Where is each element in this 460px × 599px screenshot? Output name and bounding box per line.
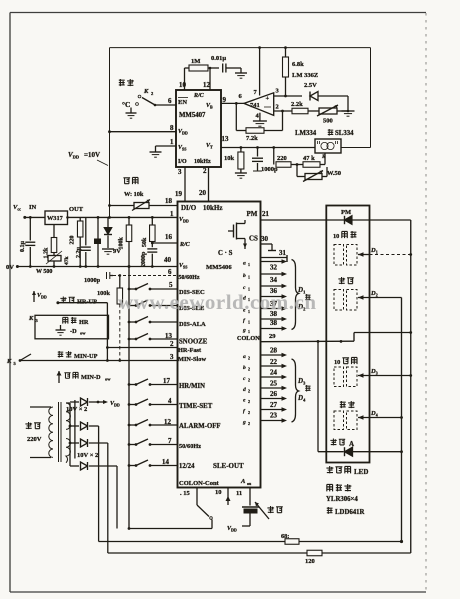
svg-text:220: 220 bbox=[277, 155, 287, 162]
potentiometer W50 bbox=[297, 165, 341, 182]
svg-text:-D: -D bbox=[70, 328, 77, 335]
svg-text:A: A bbox=[240, 478, 246, 485]
IC W317 bbox=[45, 211, 68, 225]
svg-text:HR: HR bbox=[79, 319, 89, 326]
svg-text:LDD641R: LDD641R bbox=[335, 509, 365, 516]
svg-text:10: 10 bbox=[215, 489, 222, 496]
op-amp U1 741 bbox=[239, 88, 280, 120]
svg-text:K: K bbox=[143, 88, 149, 95]
svg-text:1: 1 bbox=[248, 320, 250, 325]
svg-text:ow: ow bbox=[105, 377, 111, 382]
svg-text:www.eeworld.com.cn: www.eeworld.com.cn bbox=[118, 290, 317, 314]
wire 741 out to pin9 bbox=[221, 102, 244, 105]
switch 50/60Hz pin7 bbox=[128, 439, 178, 446]
svg-text:1: 1 bbox=[248, 329, 250, 334]
wire switch bus bbox=[128, 265, 131, 528]
label hour digit bbox=[338, 277, 353, 284]
svg-text:16: 16 bbox=[165, 233, 173, 241]
svg-text:I/O: I/O bbox=[178, 159, 187, 165]
display annotation bbox=[326, 466, 368, 516]
svg-text:W: 10k: W: 10k bbox=[124, 191, 144, 198]
display digit2 bbox=[334, 290, 357, 311]
svg-text:W.50: W.50 bbox=[327, 170, 341, 177]
svg-text:10V × 2: 10V × 2 bbox=[66, 406, 87, 413]
svg-text:MM5406: MM5406 bbox=[206, 264, 232, 271]
ground pin1 MM5407 bbox=[150, 146, 177, 157]
svg-text:K: K bbox=[6, 358, 12, 365]
svg-text:PM: PM bbox=[247, 210, 258, 218]
label 10Vx2 top bbox=[66, 406, 87, 413]
resistor 220 bbox=[274, 148, 303, 168]
svg-text:6: 6 bbox=[168, 97, 172, 105]
capacitor 2.2u bbox=[76, 217, 91, 266]
svg-text:47k: 47k bbox=[64, 256, 70, 266]
svg-text:3: 3 bbox=[178, 168, 182, 176]
resistor 1M bbox=[185, 58, 220, 90]
MM5406 center labels bbox=[206, 210, 258, 271]
svg-text:VDD: VDD bbox=[179, 217, 189, 224]
label MIN-UP bbox=[58, 351, 98, 360]
wire 741 pin7 supply bbox=[258, 46, 261, 95]
svg-text:SL334: SL334 bbox=[335, 130, 354, 137]
resistor 6.8k bbox=[283, 46, 305, 96]
svg-text:1M: 1M bbox=[191, 58, 200, 65]
svg-text:2.2k: 2.2k bbox=[291, 101, 303, 108]
svg-text:HR/MIN: HR/MIN bbox=[179, 383, 205, 390]
label min digit bbox=[340, 401, 355, 408]
svg-text:2.5V: 2.5V bbox=[304, 82, 317, 89]
display digit1 bbox=[334, 245, 357, 266]
svg-text:10V × 2: 10V × 2 bbox=[77, 452, 98, 459]
MM5407 labels bbox=[178, 93, 213, 165]
label K3 bbox=[28, 315, 39, 323]
svg-text:MIN-UP: MIN-UP bbox=[74, 353, 98, 360]
wire bus B bbox=[106, 303, 108, 361]
svg-text:1: 1 bbox=[248, 275, 250, 280]
capacitor elco blob bbox=[94, 217, 101, 266]
wire center tap bbox=[74, 400, 76, 459]
svg-text:b: b bbox=[243, 273, 246, 279]
wire pin16 RC bbox=[151, 242, 178, 245]
svg-text:2: 2 bbox=[170, 340, 174, 348]
svg-text:a: a bbox=[243, 261, 246, 267]
svg-text:4: 4 bbox=[168, 397, 172, 405]
svg-text:d: d bbox=[243, 387, 246, 393]
svg-text:741: 741 bbox=[250, 102, 260, 109]
watermark eeworld bbox=[118, 290, 317, 314]
svg-text:220V: 220V bbox=[27, 436, 42, 443]
IC LM334 bbox=[295, 129, 354, 153]
potentiometer 500 bbox=[317, 105, 349, 125]
wire D4 bbox=[358, 410, 402, 420]
svg-text:OUT: OUT bbox=[69, 206, 84, 213]
wire rect out 3 bbox=[116, 466, 118, 529]
svg-text:VSS: VSS bbox=[179, 263, 188, 270]
svg-text:50/60Hz: 50/60Hz bbox=[179, 275, 200, 281]
svg-text:g: g bbox=[242, 328, 246, 334]
wire D1 bbox=[358, 247, 411, 257]
label OUT bbox=[66, 206, 84, 219]
display box bbox=[326, 206, 369, 463]
wire V+ top rail bbox=[110, 47, 371, 49]
svg-text:VT: VT bbox=[206, 143, 213, 150]
svg-text:HR-Fast: HR-Fast bbox=[178, 347, 202, 354]
resistor 50k bbox=[142, 217, 155, 247]
svg-text:2: 2 bbox=[276, 104, 279, 111]
switch pin15 bbox=[180, 488, 212, 529]
svg-text:5: 5 bbox=[169, 281, 173, 289]
svg-text:26: 26 bbox=[270, 390, 278, 398]
svg-text:500: 500 bbox=[323, 118, 333, 125]
svg-text:K: K bbox=[28, 315, 34, 322]
MM5406 left pin labels bbox=[162, 197, 174, 466]
svg-text:30: 30 bbox=[261, 235, 269, 243]
wire rect out 1 bbox=[98, 426, 100, 542]
svg-text:2.2μ: 2.2μ bbox=[76, 247, 82, 259]
svg-text:°C: °C bbox=[122, 100, 130, 109]
svg-text:100k: 100k bbox=[97, 290, 110, 297]
svg-text:2: 2 bbox=[248, 367, 250, 372]
svg-text:29: 29 bbox=[269, 333, 276, 340]
resistor 220 vert bbox=[70, 217, 83, 266]
svg-text:2: 2 bbox=[248, 389, 250, 394]
svg-text:VDD: VDD bbox=[227, 526, 237, 533]
wire V+ left vertical bbox=[109, 48, 111, 218]
pin 29 colon wire bbox=[261, 333, 411, 343]
svg-text:40: 40 bbox=[164, 256, 172, 264]
wire pin15 rail bbox=[128, 527, 212, 530]
buzzer alarm bbox=[227, 488, 283, 533]
display digit4 bbox=[334, 411, 357, 430]
svg-text:W317: W317 bbox=[47, 215, 63, 222]
svg-text:3: 3 bbox=[170, 353, 174, 361]
label VDD out bbox=[98, 400, 120, 408]
svg-text:MM5407: MM5407 bbox=[179, 112, 206, 119]
resistor 47k bbox=[303, 153, 326, 167]
svg-text:6: 6 bbox=[168, 268, 172, 276]
svg-text:100k: 100k bbox=[119, 237, 125, 250]
stub pin10 bbox=[215, 488, 231, 506]
wire pin3-19 bbox=[184, 167, 186, 202]
switch DIS-ALA bbox=[128, 317, 178, 324]
svg-text:2: 2 bbox=[248, 378, 250, 383]
svg-text:CS: CS bbox=[249, 235, 258, 243]
wire pin8 VDD bbox=[108, 130, 176, 133]
svg-text:25: 25 bbox=[270, 380, 278, 388]
switch DIS-SLE bbox=[128, 300, 178, 307]
svg-text:LM334: LM334 bbox=[295, 130, 317, 137]
wire V+ right vertical bbox=[341, 48, 371, 148]
svg-text:19: 19 bbox=[175, 190, 183, 198]
svg-text:10: 10 bbox=[333, 233, 339, 240]
brace D1 D2 bbox=[292, 260, 311, 330]
svg-text:DI/O: DI/O bbox=[181, 204, 197, 212]
svg-text:LM 336Z: LM 336Z bbox=[292, 72, 318, 79]
capacitor 0.1u bbox=[20, 216, 35, 267]
svg-text:C · S: C · S bbox=[218, 250, 233, 257]
svg-text:14: 14 bbox=[162, 458, 170, 466]
svg-text:R/C: R/C bbox=[193, 93, 205, 99]
svg-text:+: + bbox=[266, 95, 270, 102]
resistor 10k bbox=[224, 148, 247, 179]
svg-text:W 500: W 500 bbox=[36, 269, 52, 275]
svg-text:47 k: 47 k bbox=[303, 155, 315, 162]
label VDD=10V bbox=[68, 151, 108, 166]
resistor 7.2k feedback bbox=[236, 103, 282, 142]
wire 741 pin2 bbox=[274, 110, 292, 113]
pin 21 PM wire bbox=[261, 210, 327, 220]
wire MIN-Slow pin3 bbox=[19, 354, 178, 362]
diode D6 bbox=[70, 422, 99, 430]
label AC 220V bbox=[25, 422, 41, 443]
svg-text:23: 23 bbox=[270, 412, 278, 420]
wire pin12 bbox=[209, 67, 212, 90]
switch HR/MIN pin17 bbox=[128, 379, 178, 386]
svg-text:. 15: . 15 bbox=[180, 490, 191, 497]
capacitor 1000p pin6 bbox=[84, 272, 178, 284]
transformer T1 bbox=[30, 402, 70, 463]
resistor 100k bbox=[119, 217, 132, 266]
MM5406 segment outputs digit2 bbox=[242, 347, 287, 427]
diode D5 bbox=[70, 398, 99, 406]
wire HR-Fast pin2 bbox=[106, 346, 178, 349]
svg-text:0.1μ: 0.1μ bbox=[20, 241, 26, 253]
svg-text:22: 22 bbox=[270, 358, 278, 366]
capacitor 2000p bbox=[141, 243, 157, 267]
MOSFET inside MM5406 bbox=[228, 220, 247, 249]
svg-text:18: 18 bbox=[165, 197, 173, 205]
wire rail 120 bbox=[108, 552, 411, 554]
brightness pot W10k bbox=[108, 177, 177, 210]
svg-text:HR-UP: HR-UP bbox=[77, 299, 97, 306]
svg-text:10kHz: 10kHz bbox=[203, 204, 222, 212]
svg-text:220: 220 bbox=[70, 236, 76, 245]
svg-text:MIN-Slow: MIN-Slow bbox=[178, 356, 206, 363]
svg-text:2: 2 bbox=[248, 410, 250, 415]
wire pin13 VT bbox=[221, 146, 315, 149]
label MIN-Down bbox=[57, 371, 112, 383]
terminal Vcc IN bbox=[13, 204, 45, 219]
svg-text:2: 2 bbox=[248, 421, 250, 426]
svg-text:COLON: COLON bbox=[237, 335, 260, 342]
svg-text:1: 1 bbox=[248, 262, 250, 267]
svg-text:50k: 50k bbox=[142, 237, 148, 247]
svg-text:21: 21 bbox=[262, 210, 270, 218]
svg-text:SLE-OUT: SLE-OUT bbox=[213, 462, 244, 470]
wire 741 pin3 bbox=[274, 95, 302, 98]
resistor 68 bbox=[281, 533, 299, 544]
diode D7 bbox=[70, 439, 108, 447]
svg-text:SNOOZE: SNOOZE bbox=[179, 339, 208, 346]
svg-text:VDD: VDD bbox=[37, 293, 47, 300]
svg-text:10: 10 bbox=[334, 359, 340, 366]
capacitor 0.01u bbox=[211, 55, 247, 78]
resistor 47k small bbox=[64, 256, 70, 266]
svg-text:VSS: VSS bbox=[178, 145, 187, 152]
zener LM336Z 2.5V bbox=[292, 72, 355, 116]
svg-text:ow: ow bbox=[80, 331, 86, 336]
label VDD arrow HR-UP bbox=[32, 291, 47, 302]
svg-text:TIME-SET: TIME-SET bbox=[179, 403, 213, 410]
svg-text:12/24: 12/24 bbox=[179, 463, 195, 470]
svg-text:EN: EN bbox=[178, 99, 187, 106]
svg-text:34: 34 bbox=[270, 276, 278, 284]
wire right vertical B bbox=[409, 220, 412, 553]
capacitor 1000p bbox=[252, 148, 278, 174]
svg-text:a: a bbox=[243, 354, 246, 360]
resistor 120 bbox=[305, 550, 322, 565]
switch DIS-SEC pin5 bbox=[128, 284, 178, 291]
svg-text:10: 10 bbox=[179, 81, 187, 89]
resistor 1.2k bbox=[44, 225, 57, 259]
wire secondary rail bbox=[66, 403, 71, 466]
wire D2 bbox=[358, 290, 402, 300]
svg-text:2000p: 2000p bbox=[141, 251, 147, 267]
svg-text:7: 7 bbox=[168, 437, 172, 445]
switch TIME-SET pin4 bbox=[128, 399, 178, 406]
MM5407 pin numbers bbox=[168, 81, 229, 198]
ground 741 pin4 bbox=[253, 113, 267, 127]
svg-text:1000p: 1000p bbox=[84, 277, 101, 284]
svg-text:=10V: =10V bbox=[84, 151, 100, 159]
svg-text:0V: 0V bbox=[6, 264, 14, 271]
svg-text:31: 31 bbox=[279, 249, 287, 257]
label 10Vx2 bottom bbox=[77, 452, 98, 459]
svg-text:2: 2 bbox=[248, 356, 250, 361]
svg-text:b: b bbox=[243, 365, 246, 371]
potentiometer W500 bbox=[36, 251, 62, 275]
wire HR-UP bbox=[56, 297, 107, 306]
MM5406 top labels bbox=[181, 204, 222, 212]
svg-text:YLR306×4: YLR306×4 bbox=[326, 496, 358, 503]
pin 31 stub bbox=[261, 249, 288, 262]
MM5406 segment outputs digit1 bbox=[242, 259, 287, 334]
svg-text:R/C: R/C bbox=[179, 242, 191, 248]
svg-text:R: R bbox=[321, 154, 326, 160]
svg-text:32: 32 bbox=[270, 264, 278, 272]
zener 9V bbox=[102, 217, 121, 255]
IC MM5407 bbox=[176, 90, 221, 167]
wire right vertical A bbox=[400, 298, 403, 544]
terminal 0V bbox=[6, 264, 19, 271]
alarm LED A bbox=[317, 340, 402, 456]
wire pin2-20 bbox=[208, 167, 210, 202]
MM5406 left inside labels bbox=[178, 217, 260, 487]
svg-text:VDD: VDD bbox=[178, 129, 188, 136]
IC MM5406 bbox=[178, 202, 261, 488]
svg-text:g: g bbox=[242, 420, 246, 426]
diode D8 bbox=[70, 462, 117, 470]
svg-text:IN: IN bbox=[29, 204, 37, 211]
svg-text:8: 8 bbox=[170, 124, 174, 132]
svg-text:6.8k: 6.8k bbox=[292, 61, 304, 68]
svg-text:11: 11 bbox=[236, 490, 242, 497]
svg-text:27: 27 bbox=[270, 401, 278, 409]
switch 12/24 pin14 bbox=[128, 460, 178, 467]
svg-text:28: 28 bbox=[270, 347, 278, 355]
svg-text:MIN-D: MIN-D bbox=[81, 374, 101, 381]
svg-text:DIS-ALA: DIS-ALA bbox=[179, 321, 206, 328]
wire D3 bbox=[358, 368, 411, 378]
svg-text:0.01μ: 0.01μ bbox=[211, 55, 226, 62]
display digit3 bbox=[334, 367, 357, 387]
svg-text:13: 13 bbox=[222, 135, 230, 143]
box HR-Down bbox=[35, 315, 109, 339]
switch SNOOZE pin13 bbox=[128, 334, 178, 341]
svg-text:10kHz: 10kHz bbox=[194, 159, 211, 165]
switch ALARM-OFF pin12 bbox=[128, 420, 178, 427]
svg-text:50/60Hz: 50/60Hz bbox=[179, 443, 201, 450]
wire 0V rail bbox=[17, 265, 177, 268]
svg-text:VDD: VDD bbox=[110, 401, 120, 408]
svg-text:PM: PM bbox=[341, 209, 351, 216]
resistor 100k 2 bbox=[97, 276, 123, 361]
svg-text:7.2k: 7.2k bbox=[246, 135, 258, 142]
brace D3 D4 bbox=[292, 359, 311, 422]
svg-text:2: 2 bbox=[203, 167, 207, 175]
svg-text:20: 20 bbox=[199, 189, 207, 197]
label K5 bbox=[6, 358, 17, 366]
switch K2 bbox=[119, 79, 176, 118]
resistor 2.2k bbox=[291, 101, 319, 114]
label 10 min digit bbox=[334, 357, 357, 366]
display PM LED bbox=[326, 209, 410, 224]
label 10 hour digit bbox=[333, 231, 356, 240]
svg-text:2: 2 bbox=[248, 399, 250, 404]
svg-text:120: 120 bbox=[305, 558, 315, 565]
svg-text:1: 1 bbox=[170, 138, 174, 146]
svg-text:24: 24 bbox=[270, 369, 278, 377]
svg-text:10k: 10k bbox=[224, 155, 235, 162]
wire rail 68 bbox=[99, 541, 402, 543]
wire pin1 VDD bbox=[68, 216, 178, 219]
svg-text:LED: LED bbox=[354, 468, 368, 476]
svg-text:38: 38 bbox=[270, 319, 278, 327]
svg-text:17: 17 bbox=[163, 377, 171, 385]
svg-text:VB: VB bbox=[206, 103, 213, 110]
pin 30 CS wire bbox=[261, 235, 277, 251]
svg-text:A: A bbox=[349, 440, 354, 448]
svg-text:COLON-Cont: COLON-Cont bbox=[179, 480, 220, 487]
wire rect out 2 bbox=[107, 443, 109, 553]
svg-text:ALARM-OFF: ALARM-OFF bbox=[179, 423, 221, 430]
